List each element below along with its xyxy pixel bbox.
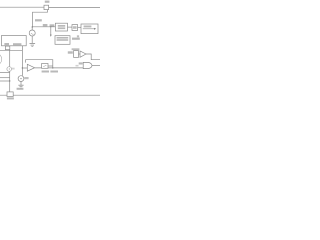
box E pin text left <box>4 43 9 45</box>
box D internal arrow <box>83 28 95 30</box>
wire line G lower rail <box>0 49 22 51</box>
op-amp U1 triangle <box>27 64 34 71</box>
wire K to M <box>79 53 81 55</box>
wire C to D <box>78 26 81 28</box>
box B text line1 <box>57 37 69 39</box>
gate U2 and-gate <box>83 62 92 68</box>
box C text <box>73 26 77 29</box>
ground G2 <box>18 84 23 86</box>
resistor R1 sense box on bus <box>44 5 49 9</box>
mark inside I1 <box>8 68 10 70</box>
box H shunt on bottom bus <box>7 92 13 97</box>
wire gate output to right edge <box>92 65 100 67</box>
wire circle J to ground <box>20 82 22 86</box>
wire long vertical from E pin <box>21 46 23 76</box>
label under ground G2 <box>17 88 24 90</box>
buffer M triangle <box>80 51 86 57</box>
current source I1 circle on left vertical <box>9 50 11 67</box>
box E large block <box>2 36 27 46</box>
box C small block <box>72 25 78 31</box>
label right of junction <box>50 24 55 26</box>
ground G1 <box>30 42 36 44</box>
DAC circle J <box>21 75 22 77</box>
faint label on wire <box>76 65 79 67</box>
box K pwm block <box>74 51 79 58</box>
mark inside circle J <box>20 78 21 79</box>
wire M output to right edge <box>86 54 100 60</box>
node dot stub <box>9 80 10 81</box>
bottom bus wire <box>0 94 100 96</box>
stub wire from edge 3 <box>0 80 10 82</box>
node A stem to source circle <box>31 27 33 30</box>
label below box D <box>77 35 79 37</box>
label right of circle J <box>24 77 28 79</box>
box B text line2 <box>57 39 69 41</box>
wire op-amp output <box>35 67 84 69</box>
resistor R2 box on output <box>42 64 48 69</box>
box A text line1 <box>58 25 65 27</box>
wire to op-amp input <box>22 67 27 69</box>
label R1 value <box>45 1 50 3</box>
wire tap from R1 down-left <box>33 10 48 27</box>
mark inside R2 <box>43 65 46 67</box>
decorative arc at left edge <box>0 55 2 64</box>
stub wire from edge 1 <box>0 71 10 73</box>
label below output wire left <box>42 71 49 73</box>
node junction dot <box>50 26 51 27</box>
wire node row to box A <box>33 26 56 28</box>
box D label above arrow <box>84 26 92 28</box>
source circle V1 <box>29 30 35 36</box>
arrow current direction down <box>50 28 52 36</box>
box E pin text right <box>13 43 21 45</box>
label left of gate <box>79 62 83 64</box>
node dot op-amp input <box>22 67 23 68</box>
label left of junction <box>43 24 48 26</box>
label node voltage <box>35 19 42 21</box>
feedback loop wire <box>26 60 53 68</box>
wire A to C <box>68 26 73 28</box>
wire below I1 <box>9 71 11 92</box>
box A regulator <box>55 23 67 31</box>
box F small under E <box>5 46 9 50</box>
stub wire from edge 2 <box>0 77 10 79</box>
wire circle to ground <box>31 36 33 43</box>
box B block with two text lines <box>55 36 70 45</box>
node dot feedback <box>52 67 53 68</box>
wire top supply bus right <box>49 6 100 8</box>
box D delay block <box>81 24 98 34</box>
wire box R2 to feedback corner <box>48 65 53 67</box>
label below output wire right <box>50 71 58 73</box>
label below box H <box>7 97 14 99</box>
label right of box B <box>72 38 80 40</box>
faint label right of I1 <box>12 68 15 70</box>
label PWM left of box K <box>68 51 73 53</box>
box A text line2 <box>58 27 65 29</box>
wire top supply bus left <box>0 6 44 8</box>
source mark <box>31 33 34 34</box>
label above box K <box>72 48 80 50</box>
